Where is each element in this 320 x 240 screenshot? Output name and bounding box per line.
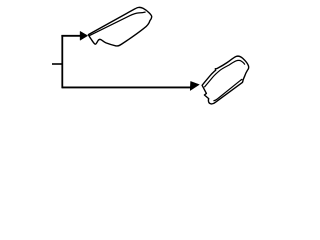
lower part bottom inner line — [213, 79, 242, 101]
upper part outline — [88, 7, 151, 46]
lower part top inner line — [204, 60, 245, 87]
lower part outline — [202, 56, 249, 104]
upper part inner fold line — [89, 12, 146, 36]
tick mark on bracket — [52, 63, 62, 65]
arrowhead to upper part — [80, 31, 88, 40]
arrowhead to lower part — [190, 81, 199, 90]
wire: vertical bracket line — [61, 35, 63, 88]
wire: top leader line — [61, 35, 80, 37]
wire: bottom leader line — [62, 86, 191, 88]
